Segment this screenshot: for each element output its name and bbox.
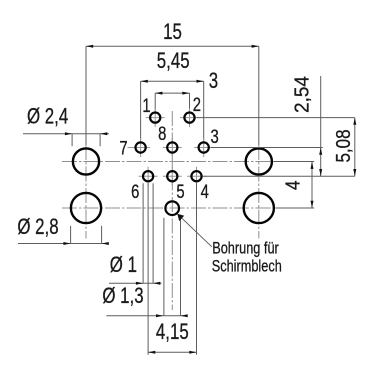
vertical centerline right circles	[258, 145, 260, 239]
extension line pin6 left tangent	[142, 183, 144, 283]
svg-text:5,45: 5,45	[157, 49, 190, 74]
svg-text:15: 15	[163, 20, 182, 45]
svg-text:5: 5	[176, 181, 184, 202]
extension stub left of pin 7	[128, 147, 134, 149]
extension line shield hole left tangent	[163, 218, 165, 316]
mounting hole bottom-left Ø2,8	[71, 193, 101, 223]
svg-text:4: 4	[201, 181, 209, 202]
dimension 5,45 line	[141, 80, 204, 83]
extension line pin2 column	[189, 93, 191, 110]
extension line row2 right	[211, 147, 323, 149]
dimension 3 line	[155, 92, 189, 95]
mounting hole bottom-right Ø2,8	[244, 193, 274, 223]
dimension 4 line	[311, 162, 314, 209]
svg-text:1: 1	[142, 95, 150, 116]
pin 7	[131, 138, 150, 157]
svg-text:Bohrung für: Bohrung für	[212, 239, 279, 258]
vertical centerline middle column	[171, 111, 173, 310]
extension line pin7 column	[140, 81, 142, 140]
horizontal centerline upper circle row	[62, 161, 282, 163]
dimension Ø 2,4 line	[23, 132, 109, 135]
svg-text:Schirmblech: Schirmblech	[212, 257, 282, 276]
horizontal centerline lower circle row	[62, 207, 282, 209]
extension line lower circle row right	[276, 207, 315, 209]
svg-text:Ø 1,3: Ø 1,3	[102, 284, 143, 309]
pin 4	[187, 167, 206, 186]
pin 1	[146, 108, 165, 127]
extension line row1 right	[197, 117, 355, 119]
leader line shield hole note	[177, 214, 212, 247]
extension line right circle column	[258, 46, 260, 145]
pin 8	[163, 138, 182, 157]
extension line row3 right	[203, 175, 354, 177]
svg-text:3: 3	[210, 126, 218, 147]
mounting hole top-left Ø2,4	[73, 148, 99, 174]
svg-text:2: 2	[193, 94, 201, 115]
dimension 5,08 line	[353, 118, 356, 177]
svg-text:8: 8	[158, 123, 166, 144]
extension line pin4 center	[196, 183, 198, 355]
dimension 15 line	[86, 45, 259, 48]
dimension Ø 1,3 line	[106, 314, 187, 317]
extension line pin6 right tangent	[152, 183, 154, 283]
extension line pin1 column	[154, 93, 156, 110]
svg-text:7: 7	[119, 138, 127, 159]
svg-text:2,54: 2,54	[291, 76, 314, 113]
svg-text:6: 6	[131, 181, 139, 202]
extension line pin6 center	[147, 183, 149, 355]
extension line left circle column	[85, 46, 87, 145]
extension line Ø2,4 left tangent	[71, 134, 73, 147]
pin 6	[139, 167, 158, 186]
extension line Ø2,8 left tangent	[70, 226, 72, 244]
svg-text:Ø 2,4: Ø 2,4	[27, 104, 68, 129]
vertical centerline left circles	[85, 145, 87, 239]
pin 2	[180, 108, 199, 127]
dimension Ø 1 line	[109, 282, 162, 285]
svg-text:4: 4	[281, 181, 304, 190]
extension line pin3 column	[203, 81, 205, 140]
svg-text:4,15: 4,15	[156, 320, 189, 345]
svg-text:3: 3	[209, 69, 218, 94]
extension line circle row right	[274, 161, 314, 163]
dimension 2,54 line	[319, 76, 322, 176]
extension line Ø2,8 right tangent	[101, 226, 103, 244]
extension line Ø2,4 right tangent	[99, 134, 101, 147]
pin 5	[163, 167, 182, 186]
shield hole Ø1,3 (Bohrung)	[165, 201, 179, 215]
pin 3	[194, 138, 213, 157]
extension line shield hole right tangent	[180, 218, 182, 316]
dimension 4,15 line	[148, 351, 196, 354]
svg-text:5,08: 5,08	[332, 129, 355, 162]
mounting hole top-right Ø2,4	[246, 148, 272, 174]
dimension Ø 2,8 line	[18, 242, 109, 245]
svg-text:Ø 2,8: Ø 2,8	[17, 215, 58, 240]
svg-text:Ø 1: Ø 1	[110, 253, 137, 278]
